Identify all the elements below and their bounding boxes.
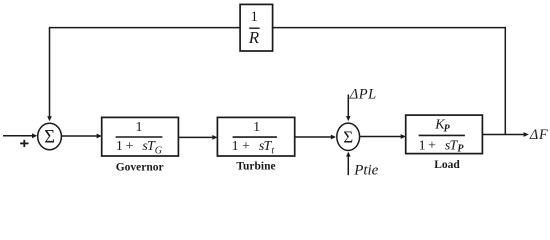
svg-text:ΔF: ΔF <box>529 127 549 143</box>
svg-text:P: P <box>444 124 451 135</box>
svg-text:Governor: Governor <box>116 162 164 174</box>
svg-text:1: 1 <box>251 9 258 25</box>
svg-text:Turbine: Turbine <box>236 161 275 173</box>
svg-text:Σ: Σ <box>44 128 55 148</box>
svg-text:1: 1 <box>136 120 143 135</box>
svg-text:Σ: Σ <box>343 127 353 146</box>
svg-text:Load: Load <box>434 159 460 171</box>
svg-text:Ptie: Ptie <box>353 163 378 179</box>
svg-text:R: R <box>248 28 260 47</box>
svg-text:1: 1 <box>253 120 260 135</box>
svg-text:ΔPL: ΔPL <box>349 87 377 103</box>
